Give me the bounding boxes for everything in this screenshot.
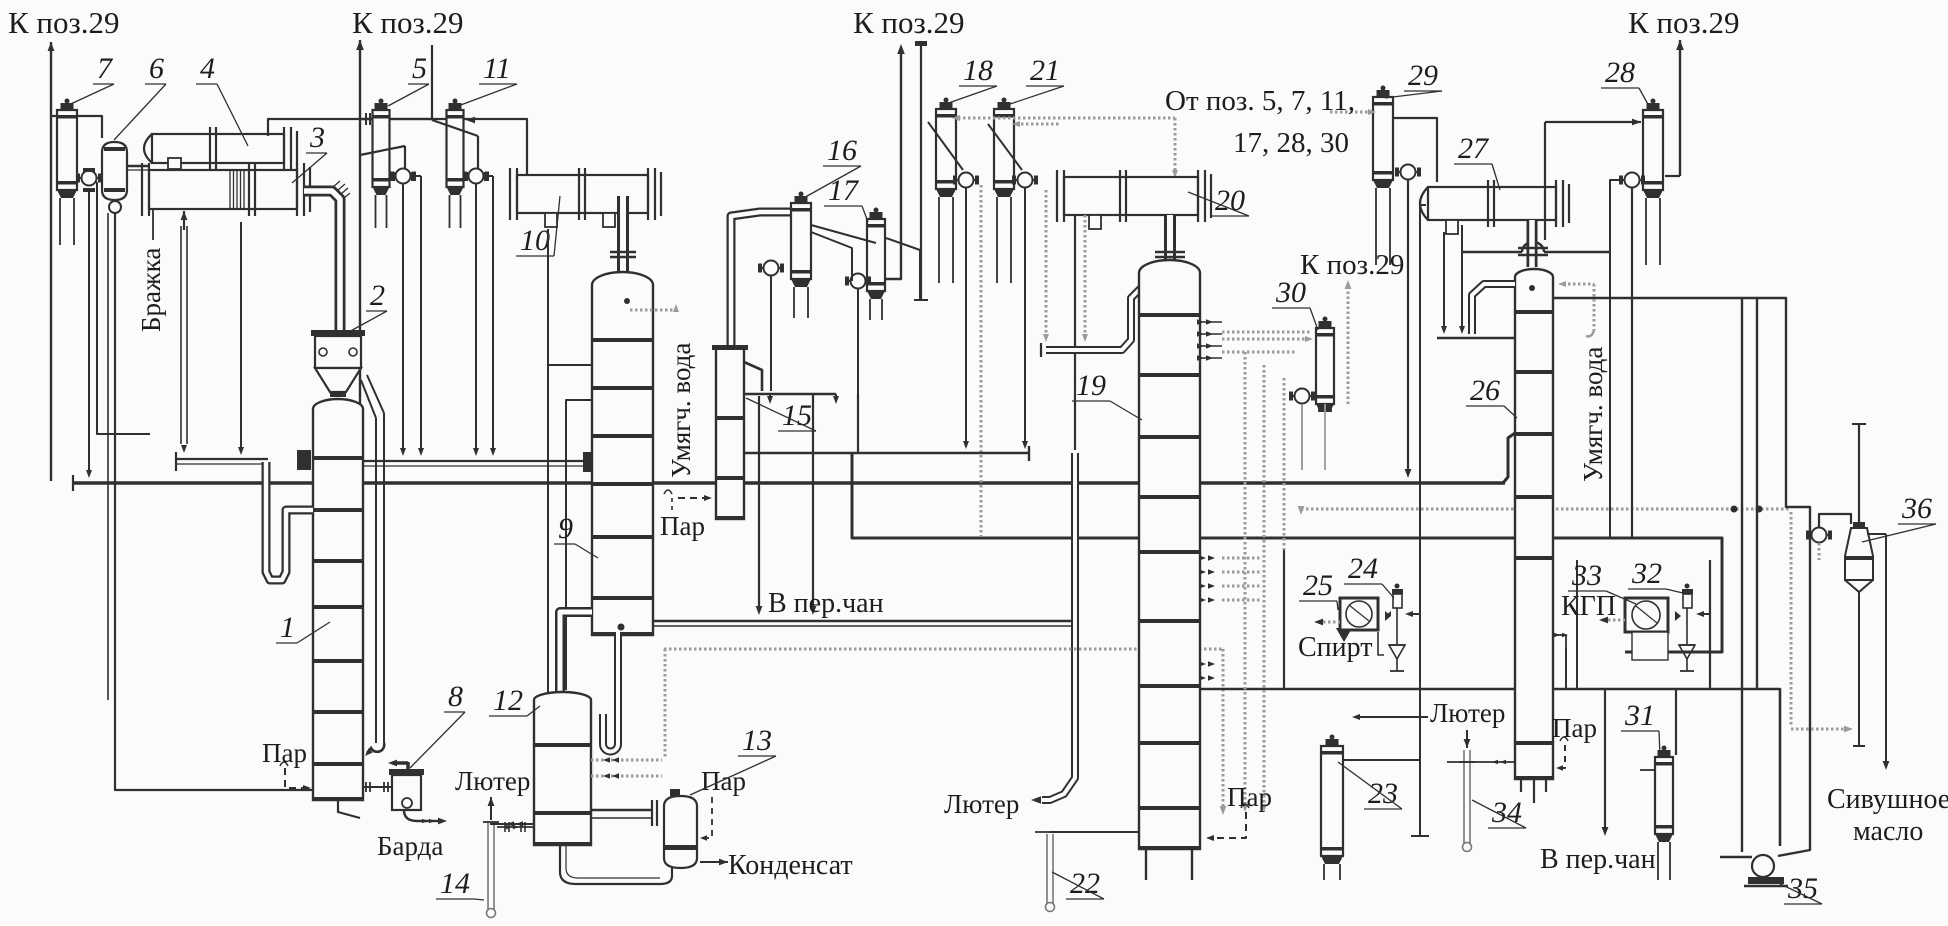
svg-text:Сивушное: Сивушное	[1827, 784, 1948, 815]
svg-text:Пар: Пар	[1552, 713, 1597, 743]
svg-text:36: 36	[1901, 492, 1932, 525]
svg-text:10: 10	[520, 224, 550, 257]
svg-text:17: 17	[828, 174, 860, 207]
svg-text:2: 2	[370, 279, 385, 312]
svg-text:3: 3	[309, 121, 325, 154]
svg-text:12: 12	[493, 684, 523, 717]
svg-text:28: 28	[1605, 56, 1635, 89]
svg-text:К поз.29: К поз.29	[1628, 5, 1740, 40]
svg-text:5: 5	[412, 52, 427, 85]
svg-text:От поз. 5, 7, 11,: От поз. 5, 7, 11,	[1165, 85, 1355, 117]
svg-text:9: 9	[558, 512, 573, 545]
svg-text:Лютер: Лютер	[455, 766, 530, 796]
svg-text:6: 6	[149, 52, 164, 85]
svg-text:11: 11	[483, 52, 511, 85]
svg-text:16: 16	[827, 134, 857, 167]
svg-text:Пар: Пар	[701, 766, 746, 796]
svg-text:4: 4	[200, 52, 215, 85]
svg-text:21: 21	[1030, 54, 1060, 87]
svg-text:25: 25	[1303, 569, 1333, 602]
svg-text:масло: масло	[1853, 816, 1923, 847]
svg-text:В пер.чан: В пер.чан	[1540, 844, 1656, 875]
svg-text:Пар: Пар	[262, 738, 307, 768]
svg-text:Пар: Пар	[1227, 782, 1272, 812]
svg-text:30: 30	[1275, 276, 1306, 309]
svg-text:В пер.чан: В пер.чан	[768, 588, 884, 619]
svg-text:26: 26	[1470, 374, 1500, 407]
svg-text:17, 28, 30: 17, 28, 30	[1233, 127, 1349, 159]
svg-text:К поз.29: К поз.29	[8, 5, 120, 40]
svg-text:Лютер: Лютер	[944, 789, 1019, 819]
svg-text:Пар: Пар	[660, 511, 705, 541]
svg-text:23: 23	[1368, 777, 1398, 810]
svg-text:Барда: Барда	[377, 831, 443, 861]
svg-text:31: 31	[1624, 699, 1655, 732]
svg-text:27: 27	[1458, 132, 1490, 165]
svg-text:33: 33	[1571, 559, 1602, 592]
svg-text:КГП: КГП	[1561, 591, 1616, 622]
svg-text:14: 14	[440, 867, 470, 900]
svg-text:Умягч. вода: Умягч. вода	[666, 343, 696, 478]
svg-text:7: 7	[97, 52, 114, 85]
svg-text:Умягч. вода: Умягч. вода	[1578, 347, 1608, 482]
svg-text:1: 1	[280, 611, 295, 644]
svg-text:Спирт: Спирт	[1298, 632, 1373, 663]
svg-text:29: 29	[1408, 59, 1438, 92]
svg-text:8: 8	[448, 680, 463, 713]
svg-text:13: 13	[742, 724, 772, 757]
svg-text:32: 32	[1631, 557, 1662, 590]
svg-text:К поз.29: К поз.29	[1300, 249, 1404, 281]
svg-text:К поз.29: К поз.29	[853, 5, 965, 40]
svg-text:18: 18	[963, 54, 993, 87]
svg-text:Бражка: Бражка	[136, 248, 166, 332]
svg-text:24: 24	[1348, 552, 1378, 585]
svg-text:19: 19	[1076, 369, 1106, 402]
svg-text:К поз.29: К поз.29	[352, 5, 464, 40]
svg-text:Конденсат: Конденсат	[728, 850, 853, 881]
svg-text:Лютер: Лютер	[1430, 698, 1505, 728]
